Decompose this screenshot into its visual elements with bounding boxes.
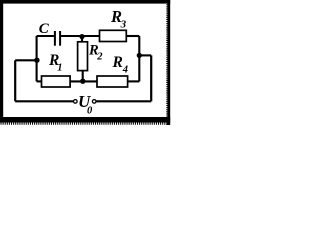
wire: R1 to R4 lead through node E — [70, 80, 97, 82]
frame (decorative) — [0, 0, 170, 125]
wire: R4 right lead — [128, 80, 140, 82]
junction node D — [137, 53, 142, 58]
wire: node A down to R1 — [36, 60, 38, 81]
junction node B — [79, 34, 84, 39]
capacitor C — [39, 21, 60, 46]
wire: vertical R3 to R4 right leads — [138, 36, 140, 81]
wire: R3 right lead — [126, 35, 139, 37]
wire: R2 top lead — [81, 36, 83, 42]
wire: node A up and right to capacitor — [37, 36, 54, 60]
resistor R1 — [42, 52, 71, 87]
svg-text:3: 3 — [120, 18, 127, 30]
svg-text:R: R — [112, 54, 123, 71]
junction node E — [80, 79, 85, 84]
wire: node A horizontal to left rail — [15, 59, 36, 61]
wire: capacitor to R3 — [61, 35, 100, 37]
wire: R1 left lead — [37, 80, 42, 82]
wire: right rail — [150, 55, 152, 101]
source U0 terminals and label — [74, 92, 96, 117]
svg-text:4: 4 — [122, 64, 128, 75]
resistor R4 — [97, 54, 128, 87]
svg-text:C: C — [39, 21, 50, 37]
resistor R2 — [78, 42, 104, 71]
wire: R2 bottom lead — [82, 71, 84, 82]
svg-text:1: 1 — [57, 62, 62, 73]
wire: node D to right rail — [139, 54, 151, 56]
svg-text:2: 2 — [96, 52, 103, 63]
wire: bottom rail left segment — [15, 100, 73, 102]
svg-text:0: 0 — [87, 106, 93, 117]
wire: bottom rail right segment — [96, 100, 151, 102]
wire: left rail — [14, 60, 16, 101]
resistor R3 — [100, 7, 127, 41]
junction node A — [34, 58, 39, 63]
